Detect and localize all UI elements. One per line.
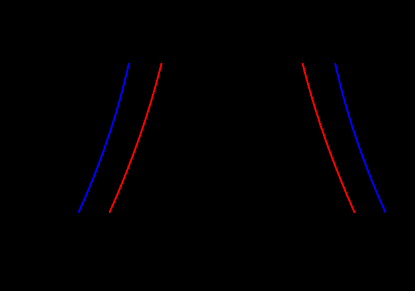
blue curve, left branch [79,64,129,212]
blue curve, right branch [335,64,385,212]
red curve, right branch [303,64,355,212]
red curve, left branch [110,64,162,212]
